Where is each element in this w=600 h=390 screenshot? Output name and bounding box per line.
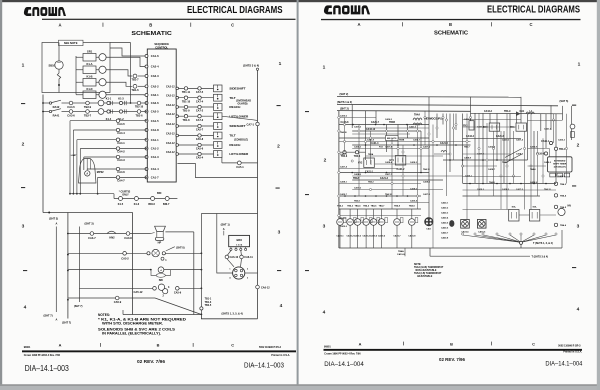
svg-text:5002 110996 R SR-3: 5002 110996 R SR-3 bbox=[558, 344, 581, 347]
round connector CA6 bbox=[227, 259, 234, 267]
svg-text:CA7-3: CA7-3 bbox=[196, 119, 204, 122]
svg-text:SB10: SB10 bbox=[49, 63, 56, 67]
svg-text:CA1-3: CA1-3 bbox=[151, 155, 159, 159]
svg-text:CA6-10: CA6-10 bbox=[230, 256, 239, 259]
row wire CA16-8 bbox=[339, 124, 429, 126]
svg-text:CA5-1: CA5-1 bbox=[236, 165, 244, 169]
svg-text:02 REV. 7/96: 02 REV. 7/96 bbox=[137, 359, 166, 364]
connector TB2-6 bbox=[123, 111, 138, 113]
horn HP bbox=[155, 226, 166, 231]
svg-text:(SHT 7): (SHT 7) bbox=[62, 321, 71, 325]
svg-text:CA20-6: CA20-6 bbox=[441, 227, 449, 230]
connector oval CM1 bbox=[449, 220, 454, 227]
svg-text:RY2: RY2 bbox=[483, 127, 488, 129]
svg-text:TB4-11: TB4-11 bbox=[423, 168, 430, 171]
svg-text:WITH STD. DISCHARGE METER.: WITH STD. DISCHARGE METER. bbox=[102, 321, 163, 325]
wire drop bbox=[489, 114, 491, 124]
svg-text:CA18-2: CA18-2 bbox=[502, 188, 510, 191]
svg-text:TB4-2: TB4-2 bbox=[368, 181, 374, 184]
BDI cluster inner wire bbox=[217, 214, 233, 274]
wire box top extension bbox=[110, 42, 131, 44]
svg-text:CA18-2: CA18-2 bbox=[354, 173, 362, 176]
fuse chain right bbox=[570, 124, 575, 129]
svg-text:CA17-5: CA17-5 bbox=[423, 146, 431, 149]
svg-text:DIA–14.1–003: DIA–14.1–003 bbox=[25, 364, 69, 373]
right bus wire bbox=[256, 68, 258, 70]
wire drop bbox=[462, 114, 464, 184]
wire with TB1-6 to CA2-2 bbox=[106, 82, 132, 86]
svg-text:(ON DELAY): (ON DELAY) bbox=[554, 165, 566, 168]
svg-text:CA19-9: CA19-9 bbox=[530, 181, 538, 184]
connector CA16-9 bbox=[544, 152, 547, 155]
terminal TB4-1 bbox=[554, 147, 557, 150]
svg-text:A: A bbox=[56, 318, 58, 322]
svg-text:SCHEMATIC: SCHEMATIC bbox=[434, 30, 468, 36]
svg-text:CA21-1: CA21-1 bbox=[544, 128, 552, 131]
svg-text:K1-B: K1-B bbox=[86, 75, 92, 79]
svg-text:CA16-8: CA16-8 bbox=[530, 146, 538, 149]
main lower bus wire bbox=[67, 213, 69, 319]
svg-text:TB4-6: TB4-6 bbox=[530, 168, 536, 171]
svg-text:90901: 90901 bbox=[324, 346, 331, 349]
svg-text:CA2-4: CA2-4 bbox=[151, 65, 159, 69]
svg-text:CA16-3: CA16-3 bbox=[558, 139, 566, 142]
wire row CA5-12 SHB bbox=[79, 287, 152, 289]
svg-text:CA4-3: CA4-3 bbox=[117, 158, 125, 162]
svg-text:CA19-6: CA19-6 bbox=[378, 235, 386, 238]
ground tree to T point bbox=[463, 235, 522, 242]
grid row upper lamps bbox=[339, 195, 421, 197]
row wire with SEE NOTE bbox=[339, 137, 429, 139]
lamp L1 bbox=[337, 219, 344, 226]
svg-text:CA5-9: CA5-9 bbox=[174, 291, 182, 294]
solenoid box SOL3 bbox=[530, 210, 540, 222]
svg-text:CA21-4: CA21-4 bbox=[371, 142, 380, 145]
svg-text:CA21-6: CA21-6 bbox=[502, 139, 510, 142]
svg-text:CA17-2: CA17-2 bbox=[354, 126, 362, 129]
svg-text:CA4-5: CA4-5 bbox=[67, 105, 75, 109]
svg-text:C: C bbox=[532, 341, 535, 346]
left edge pads right page bbox=[338, 116, 340, 118]
bottom bus right page bbox=[339, 247, 562, 249]
extra right cluster rows bbox=[463, 119, 522, 121]
svg-text:HN: HN bbox=[568, 206, 572, 208]
svg-text:CA3-8: CA3-8 bbox=[124, 236, 132, 240]
svg-text:CA20-1: CA20-1 bbox=[441, 202, 449, 205]
svg-text:EXTENDED: EXTENDED bbox=[554, 160, 566, 162]
svg-text:RA41: RA41 bbox=[53, 113, 60, 117]
svg-text:B: B bbox=[149, 22, 152, 27]
svg-text:TB1-11: TB1-11 bbox=[182, 91, 191, 94]
diode CH1 bbox=[516, 111, 521, 116]
svg-text:ELECTRICAL DIAGRAMS: ELECTRICAL DIAGRAMS bbox=[487, 4, 580, 15]
svg-text:SHIFT TIMER: SHIFT TIMER bbox=[553, 163, 567, 165]
right footer rule bbox=[324, 349, 583, 351]
svg-text:TB4-1: TB4-1 bbox=[559, 148, 566, 151]
svg-text:MP02: MP02 bbox=[97, 170, 104, 174]
svg-text:TB4-5: TB4-5 bbox=[363, 205, 370, 208]
svg-text:CA1-6: CA1-6 bbox=[151, 54, 159, 58]
svg-text:TB1-9: TB1-9 bbox=[183, 110, 191, 113]
svg-text:CA21-8: CA21-8 bbox=[367, 139, 375, 142]
wire drop bbox=[442, 114, 444, 125]
svg-text:Crown 1996 PF-9002-4 Rev. 7/96: Crown 1996 PF-9002-4 Rev. 7/96 bbox=[24, 354, 61, 357]
svg-text:(SHT 8): (SHT 8) bbox=[176, 247, 185, 250]
svg-text:4: 4 bbox=[24, 305, 27, 311]
wire row CA4-2 bbox=[80, 148, 147, 150]
connector CA4-5 bbox=[66, 102, 69, 104]
svg-text:1: 1 bbox=[323, 65, 326, 71]
row wire top right CH1 L1 bbox=[471, 112, 563, 115]
vertical feeder wire bbox=[130, 43, 132, 104]
svg-text:TILT: TILT bbox=[229, 96, 235, 100]
contacts K1-4 K1-2 bbox=[107, 110, 110, 113]
svg-text:CA19-8: CA19-8 bbox=[397, 253, 405, 256]
relay SRI parallel coils bbox=[158, 267, 164, 273]
horn HN3 bbox=[558, 208, 565, 215]
svg-text:CA18-1: CA18-1 bbox=[340, 181, 348, 184]
wire drop bbox=[555, 114, 557, 184]
svg-text:K1-5: K1-5 bbox=[118, 203, 124, 206]
svg-text:CA5-7: CA5-7 bbox=[196, 129, 204, 132]
svg-text:(SHT 3): (SHT 3) bbox=[85, 222, 94, 226]
lamp L7 bbox=[394, 219, 401, 226]
svg-text:BDI-7: BDI-7 bbox=[163, 203, 170, 206]
svg-text:CA19-3: CA19-3 bbox=[477, 188, 485, 191]
svg-text:T (SHTS 1, 3, & 4): T (SHTS 1, 3, & 4) bbox=[533, 242, 553, 245]
wire horn to right vertical bbox=[165, 231, 193, 233]
svg-text:CA20-5: CA20-5 bbox=[441, 222, 449, 225]
svg-text:DIA–14.1–004: DIA–14.1–004 bbox=[324, 361, 364, 368]
svg-text:(SHTS 1, 3, 5, & 4): (SHTS 1, 3, 5, & 4) bbox=[222, 312, 243, 315]
wire drop bbox=[571, 106, 573, 140]
wire row SRI bbox=[68, 269, 151, 271]
svg-text:3: 3 bbox=[577, 224, 580, 230]
svg-text:2: 2 bbox=[277, 144, 280, 150]
svg-text:CA19-2: CA19-2 bbox=[544, 161, 552, 164]
wire relay K1-D to CA2-1 bbox=[106, 94, 147, 96]
svg-text:NOTE:: NOTE: bbox=[414, 264, 421, 266]
svg-text:2: 2 bbox=[577, 143, 580, 149]
svg-text:TB2-7: TB2-7 bbox=[84, 113, 92, 117]
svg-text:SIDESHIFT: SIDESHIFT bbox=[229, 87, 245, 91]
coil L1 bbox=[526, 112, 534, 114]
svg-text:C: C bbox=[231, 22, 234, 27]
tree top connectors bbox=[461, 233, 463, 235]
svg-text:CA17-7: CA17-7 bbox=[385, 173, 393, 176]
connector pin CA1-8 bbox=[145, 129, 148, 132]
lamp L2 bbox=[347, 219, 354, 226]
svg-text:CA18-6: CA18-6 bbox=[410, 188, 418, 191]
svg-text:CA17-6: CA17-6 bbox=[354, 187, 362, 190]
svg-text:CA4-6: CA4-6 bbox=[117, 170, 125, 174]
wire row CA5-2 SVR bbox=[68, 252, 147, 254]
connector pin CA2-1 bbox=[145, 94, 148, 97]
svg-text:TB1-8: TB1-8 bbox=[183, 119, 191, 122]
svg-text:CA2-12: CA2-12 bbox=[166, 95, 175, 98]
wire drop bbox=[503, 131, 505, 183]
svg-text:(SHT 2): (SHT 2) bbox=[340, 107, 349, 110]
connector pin CA2-2 bbox=[145, 85, 148, 88]
connector CA6-12 bbox=[256, 285, 260, 289]
svg-text:A: A bbox=[359, 341, 362, 346]
svg-text:CA4-1: CA4-1 bbox=[117, 141, 125, 145]
wire with TB1-7 to CA2-3 bbox=[106, 70, 132, 76]
connector pin CA1-7 bbox=[145, 176, 148, 179]
relay RY3 bbox=[469, 121, 474, 130]
svg-text:5002 110996 P DV-2: 5002 110996 P DV-2 bbox=[259, 346, 282, 349]
svg-text:CA4-7: CA4-7 bbox=[117, 179, 125, 183]
svg-text:CA9: CA9 bbox=[426, 228, 431, 231]
row wire 196 right cluster bbox=[463, 195, 541, 197]
bus wire SHTS 1 and 2 bbox=[337, 104, 558, 105]
svg-text:LIFT/LOWER: LIFT/LOWER bbox=[229, 114, 249, 118]
svg-text:TB4-7: TB4-7 bbox=[379, 205, 386, 208]
bottom bus extension bbox=[430, 255, 530, 257]
solenoid SVR bbox=[147, 252, 150, 255]
svg-text:TB4A: TB4A bbox=[398, 250, 404, 253]
svg-text:B: B bbox=[449, 22, 452, 27]
connector pin CA1-1 bbox=[145, 138, 148, 141]
svg-text:T (SHTS 3 & 4): T (SHTS 3 & 4) bbox=[532, 255, 549, 258]
wire drop bbox=[482, 114, 484, 184]
central vertical wire bbox=[132, 213, 134, 315]
SEE NOTE label box bbox=[59, 40, 84, 45]
row wire 183 right cluster bbox=[463, 183, 557, 185]
connector TB2-7 bbox=[86, 110, 90, 114]
svg-text:BDI-6: BDI-6 bbox=[148, 203, 155, 206]
svg-text:CA21-1: CA21-1 bbox=[365, 170, 374, 173]
svg-text:CA1-2: CA1-2 bbox=[151, 147, 159, 151]
svg-text:DIA–14.1–003: DIA–14.1–003 bbox=[244, 363, 284, 370]
svg-text:CA17-1: CA17-1 bbox=[340, 153, 348, 156]
svg-text:TB4-7: TB4-7 bbox=[464, 146, 470, 149]
contact K1-6 bbox=[134, 197, 138, 201]
svg-text:CA20-8: CA20-8 bbox=[441, 237, 449, 240]
lamp L6 bbox=[378, 219, 385, 226]
svg-text:TB4-3: TB4-3 bbox=[347, 205, 354, 208]
solenoid SHB bbox=[158, 284, 164, 290]
svg-text:CA16-7: CA16-7 bbox=[413, 139, 421, 142]
svg-text:1: 1 bbox=[279, 61, 282, 67]
relay GR1 bbox=[83, 54, 96, 62]
svg-text:CA18-5: CA18-5 bbox=[423, 181, 431, 184]
relay K1-B bbox=[83, 79, 96, 87]
wire row CA5-9 bbox=[68, 297, 155, 299]
svg-text:CA5-4: CA5-4 bbox=[196, 157, 204, 160]
wire drop bbox=[420, 131, 422, 172]
svg-text:CA20-3: CA20-3 bbox=[441, 212, 449, 215]
wire drop bbox=[520, 97, 522, 123]
svg-text:TB4A: TB4A bbox=[353, 177, 359, 180]
svg-text:IN PARALLEL (ELECTRICALLY).: IN PARALLEL (ELECTRICALLY). bbox=[102, 331, 161, 335]
relay K1-A bbox=[83, 66, 96, 74]
outer box bottom wire bbox=[43, 212, 133, 214]
svg-text:CA17-4: CA17-4 bbox=[340, 166, 348, 169]
svg-text:CA21-5: CA21-5 bbox=[440, 142, 449, 145]
svg-text:K1-D: K1-D bbox=[86, 87, 92, 91]
motor symbol M1 bbox=[461, 220, 470, 229]
wire drop bbox=[562, 106, 564, 120]
svg-text:CA21-6: CA21-6 bbox=[496, 135, 505, 138]
svg-text:SIDESHIFT: SIDESHIFT bbox=[229, 124, 245, 128]
svg-text:CA4-4: CA4-4 bbox=[117, 131, 125, 135]
svg-text:HY2: HY2 bbox=[358, 163, 363, 165]
svg-text:TB4-4: TB4-4 bbox=[354, 200, 360, 203]
svg-text:TB4-10: TB4-10 bbox=[340, 131, 348, 134]
svg-text:TB4-8: TB4-8 bbox=[354, 155, 361, 158]
lamp L8 bbox=[409, 219, 416, 226]
svg-text:CA2-12: CA2-12 bbox=[166, 142, 175, 145]
svg-text:DIA–14.1–004: DIA–14.1–004 bbox=[545, 360, 582, 367]
svg-text:2: 2 bbox=[22, 142, 25, 148]
svg-text:TB2-10: TB2-10 bbox=[135, 106, 144, 109]
svg-text:CA19-6: CA19-6 bbox=[478, 230, 486, 233]
svg-text:CA5-6: CA5-6 bbox=[196, 148, 204, 151]
wire drop bbox=[397, 125, 399, 156]
svg-text:RA42: RA42 bbox=[53, 105, 60, 109]
svg-text:TH4A: TH4A bbox=[414, 114, 420, 117]
wire drop bbox=[407, 125, 409, 139]
terminal column right bbox=[554, 182, 557, 185]
right header rule bbox=[321, 19, 581, 20]
thermocouple TH4A bbox=[413, 123, 422, 125]
svg-text:TB1-7: TB1-7 bbox=[131, 78, 139, 82]
connector TB2-9 bbox=[86, 101, 90, 105]
lamp L4 bbox=[363, 219, 370, 226]
wire drop bbox=[428, 97, 430, 217]
contacts K1-1 K1-3 bbox=[107, 101, 110, 104]
svg-text:ADJUSTABLE: ADJUSTABLE bbox=[417, 275, 433, 278]
svg-text:(SHT 2): (SHT 2) bbox=[340, 93, 349, 96]
connector TB2-10 bbox=[123, 102, 138, 104]
svg-text:TB4-13: TB4-13 bbox=[544, 188, 552, 191]
svg-text:SOL: SOL bbox=[512, 207, 517, 209]
wire drop bbox=[527, 114, 529, 161]
svg-text:B: B bbox=[157, 343, 160, 348]
row wire lower mid bbox=[339, 172, 429, 174]
svg-text:CA20-4: CA20-4 bbox=[441, 217, 449, 220]
diagonal row wire to bus bbox=[222, 116, 258, 120]
wire drop bbox=[509, 114, 511, 161]
connector BDI-7 bbox=[165, 197, 169, 201]
left bus wire bbox=[42, 95, 44, 213]
relay K1 coil group bbox=[75, 56, 77, 95]
svg-text:(SHT 5): (SHT 5) bbox=[560, 100, 569, 103]
svg-text:CA2-5: CA2-5 bbox=[151, 110, 159, 114]
svg-text:TB4-3: TB4-3 bbox=[560, 183, 567, 186]
svg-text:Printed in U.S.A.: Printed in U.S.A. bbox=[563, 350, 582, 353]
wire drop bbox=[375, 111, 377, 125]
svg-text:CA2-12: CA2-12 bbox=[166, 151, 175, 154]
svg-text:CA3-7: CA3-7 bbox=[88, 236, 96, 240]
svg-text:CA19-7: CA19-7 bbox=[393, 235, 401, 238]
wire row CA4-4 bbox=[73, 129, 147, 131]
svg-text:A: A bbox=[59, 343, 62, 348]
svg-text:CA5-8: CA5-8 bbox=[196, 138, 204, 141]
connector pin CA2-5 bbox=[145, 110, 148, 113]
wire row CA4-3 bbox=[84, 156, 148, 158]
connector CA16-1 bbox=[549, 141, 552, 144]
svg-text:CA2-12: CA2-12 bbox=[166, 113, 175, 116]
svg-text:BDI: BDI bbox=[237, 238, 242, 242]
right page Crown logo bbox=[324, 5, 370, 14]
svg-text:TB4-2: TB4-2 bbox=[337, 205, 344, 208]
svg-text:REACH: REACH bbox=[229, 105, 241, 109]
svg-text:CA1-1: CA1-1 bbox=[151, 138, 159, 142]
svg-text:CA19-4: CA19-4 bbox=[410, 200, 418, 203]
svg-text:4: 4 bbox=[577, 307, 580, 313]
relay RY1 bbox=[516, 123, 527, 131]
meter PD row 2 bbox=[98, 109, 104, 115]
round connector CA9 bbox=[425, 218, 433, 226]
wire drop bbox=[470, 97, 472, 121]
svg-text:CA1-7: CA1-7 bbox=[151, 176, 159, 180]
bottom bus wire left bbox=[123, 314, 201, 316]
svg-text:C: C bbox=[231, 343, 234, 348]
svg-text:K1-3: K1-3 bbox=[118, 98, 124, 101]
svg-text:A: A bbox=[58, 22, 61, 27]
svg-text:CA6-12: CA6-12 bbox=[261, 286, 270, 289]
disconnect switch diagonals bbox=[505, 149, 522, 158]
wire drop bbox=[516, 114, 518, 124]
svg-text:REACH: REACH bbox=[229, 143, 241, 147]
svg-text:NON ADJUSTABLE: NON ADJUSTABLE bbox=[416, 269, 437, 272]
svg-text:CA2-12: CA2-12 bbox=[166, 104, 175, 107]
svg-text:A: A bbox=[56, 221, 58, 225]
svg-text:CA5-12: CA5-12 bbox=[134, 290, 143, 294]
svg-text:TB1-10: TB1-10 bbox=[182, 100, 191, 103]
connector pin CA2-3 bbox=[145, 75, 148, 78]
switch row RA42 bbox=[43, 102, 50, 104]
svg-text:TB2-6: TB2-6 bbox=[136, 114, 144, 117]
svg-text:CA16-3: CA16-3 bbox=[354, 146, 362, 149]
svg-text:CA17-4: CA17-4 bbox=[516, 139, 524, 142]
svg-text:ELECTRICAL DIAGRAMS: ELECTRICAL DIAGRAMS bbox=[187, 5, 283, 16]
row wire CA16-10 bbox=[352, 130, 421, 132]
svg-text:(CONSOLE): (CONSOLE) bbox=[234, 139, 248, 142]
svg-text:CA5-2: CA5-2 bbox=[121, 256, 129, 260]
svg-text:CA7-5: CA7-5 bbox=[196, 91, 204, 94]
wire drop bbox=[540, 114, 542, 131]
left bus drop bbox=[338, 111, 340, 248]
svg-text:(SHTS 3 & 4): (SHTS 3 & 4) bbox=[243, 64, 259, 68]
svg-text:TB4-9: TB4-9 bbox=[504, 110, 511, 113]
solenoid box SOL2 bbox=[509, 210, 519, 222]
svg-text:CA16-5: CA16-5 bbox=[558, 175, 566, 178]
svg-text:CA2-2: CA2-2 bbox=[151, 84, 159, 88]
svg-text:CA19-5: CA19-5 bbox=[370, 235, 378, 238]
svg-text:TB1-6: TB1-6 bbox=[131, 88, 139, 92]
connector CA6-11 bbox=[240, 251, 243, 256]
svg-text:CA19-7: CA19-7 bbox=[340, 193, 348, 196]
connector pin CA2-6 bbox=[145, 102, 148, 105]
svg-text:4: 4 bbox=[280, 303, 283, 309]
connector CA6-10 bbox=[228, 251, 231, 256]
gather wire below module bbox=[70, 193, 114, 195]
BDI cluster top wire bbox=[201, 213, 257, 215]
svg-text:CONTROL: CONTROL bbox=[155, 45, 168, 49]
svg-text:CA1-4: CA1-4 bbox=[151, 167, 159, 171]
sequence control box bbox=[147, 49, 176, 182]
svg-text:02 REV. 7/96: 02 REV. 7/96 bbox=[439, 357, 466, 362]
svg-text:CA3-6: CA3-6 bbox=[67, 113, 75, 117]
wire drop bbox=[436, 114, 438, 139]
svg-text:CA21-7: CA21-7 bbox=[371, 121, 380, 124]
svg-text:CA18-4: CA18-4 bbox=[385, 161, 393, 164]
lamp L3 bbox=[354, 219, 361, 226]
connector pin CA1-6 bbox=[145, 55, 148, 58]
